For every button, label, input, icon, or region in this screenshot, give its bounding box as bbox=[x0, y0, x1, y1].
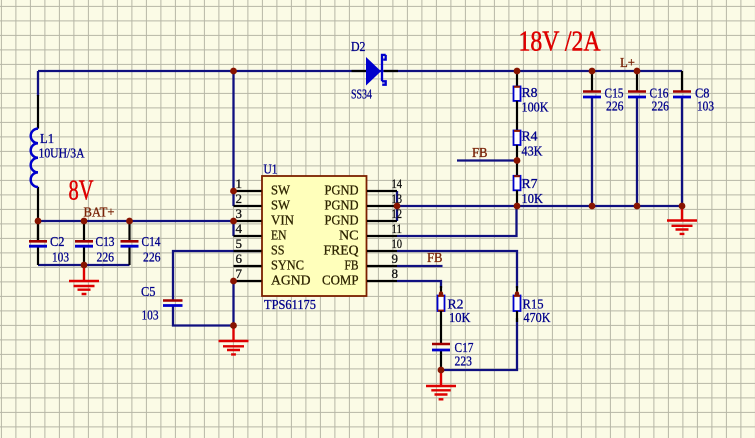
svg-text:PGND: PGND bbox=[325, 184, 359, 199]
junction pin1 bbox=[230, 188, 237, 195]
svg-text:FB: FB bbox=[427, 251, 443, 266]
svg-text:SW: SW bbox=[271, 199, 291, 214]
wire C5 bottom to ground node bbox=[173, 305, 234, 326]
svg-text:C14: C14 bbox=[142, 235, 161, 250]
wire PGND rail pin13 to right ground bbox=[397, 205, 682, 207]
ground at C17 bbox=[440, 370, 442, 386]
junction top wire at C16 bbox=[634, 68, 641, 75]
resistor R2 lead bottom bbox=[440, 311, 442, 344]
svg-text:10K: 10K bbox=[522, 192, 544, 207]
svg-text:2: 2 bbox=[236, 191, 243, 206]
capacitor C13 bbox=[83, 221, 85, 240]
svg-text:L+: L+ bbox=[620, 56, 635, 71]
resistor R7 bbox=[514, 176, 521, 191]
capacitor C17 bbox=[432, 343, 450, 346]
svg-text:5: 5 bbox=[236, 236, 243, 251]
svg-text:VIN: VIN bbox=[271, 214, 294, 229]
svg-text:43K: 43K bbox=[522, 145, 543, 160]
resistor R15 bbox=[514, 296, 521, 312]
pin L1 bottom lead to C2 bbox=[37, 187, 39, 241]
wire pins 14-13-12 vertical bbox=[396, 191, 398, 221]
svg-text:103: 103 bbox=[142, 309, 159, 324]
svg-text:BAT+: BAT+ bbox=[84, 206, 115, 221]
wire SS pin5 to C5 bbox=[173, 251, 262, 300]
svg-text:470K: 470K bbox=[524, 311, 551, 326]
resistor R8 bbox=[514, 86, 521, 101]
svg-text:R4: R4 bbox=[522, 130, 538, 145]
diode D2 SS34 bbox=[366, 57, 381, 86]
svg-text:SW: SW bbox=[271, 184, 291, 199]
wire top rail 8V to D2 to 18V bbox=[38, 70, 682, 72]
svg-text:SS34: SS34 bbox=[351, 88, 372, 103]
resistor R15 lead bottom bbox=[516, 311, 518, 322]
junction FB node bbox=[514, 157, 521, 164]
resistor R8 lead top bbox=[516, 71, 518, 86]
svg-text:L1: L1 bbox=[40, 132, 54, 147]
resistor R2 bbox=[438, 296, 445, 312]
wire pin10 FREQ to R15 bbox=[397, 251, 517, 288]
capacitor C14 bbox=[128, 221, 130, 240]
resistor R4-R7 lead bbox=[516, 145, 518, 176]
svg-text:FB: FB bbox=[345, 259, 359, 274]
svg-text:R8: R8 bbox=[522, 86, 538, 101]
junction pin3 bbox=[230, 218, 237, 225]
svg-text:8V: 8V bbox=[69, 176, 94, 207]
wire pin9 FB stub bbox=[397, 265, 443, 267]
svg-text:226: 226 bbox=[143, 251, 161, 266]
pin 11 NC bbox=[367, 235, 397, 237]
svg-text:FB: FB bbox=[472, 146, 488, 161]
pin C17 bottom lead to ground node bbox=[440, 350, 442, 370]
svg-text:6: 6 bbox=[236, 251, 243, 266]
wire left vertical to pins 1-2 bbox=[232, 71, 234, 206]
pin L1 top lead bbox=[37, 71, 39, 96]
resistor R7 lead bottom bbox=[516, 190, 518, 206]
svg-text:R7: R7 bbox=[522, 177, 538, 192]
svg-text:9: 9 bbox=[392, 251, 399, 266]
svg-text:226: 226 bbox=[97, 251, 115, 266]
wire FB net to R4-R7 junction bbox=[457, 159, 517, 161]
svg-text:TPS61175: TPS61175 bbox=[264, 298, 316, 313]
resistor R4 bbox=[514, 131, 521, 146]
resistor R15 lead top bbox=[516, 286, 518, 296]
svg-text:PGND: PGND bbox=[325, 199, 359, 214]
resistor R8-R4 lead bbox=[516, 101, 518, 131]
svg-text:226: 226 bbox=[652, 100, 670, 115]
wire pin11 NC to gnd rail bbox=[397, 206, 517, 236]
pin 7 AGND bbox=[234, 280, 262, 282]
junction PGND rail at C16 bbox=[634, 203, 641, 210]
svg-text:AGND: AGND bbox=[271, 274, 311, 289]
svg-text:18V /2A: 18V /2A bbox=[519, 27, 602, 58]
capacitor C5 bbox=[163, 299, 183, 302]
junction C17 ground node bbox=[438, 367, 445, 374]
svg-text:C5: C5 bbox=[141, 285, 156, 300]
svg-text:103: 103 bbox=[52, 251, 69, 266]
junction top wire at R8 bbox=[514, 68, 521, 75]
svg-text:EN: EN bbox=[271, 229, 287, 244]
svg-text:100K: 100K bbox=[522, 101, 549, 116]
pin 13 PGND bbox=[367, 205, 397, 207]
svg-text:226: 226 bbox=[606, 100, 624, 115]
svg-text:10K: 10K bbox=[449, 311, 471, 326]
pin 3 VIN bbox=[234, 220, 262, 222]
junction AGND ground node bbox=[230, 322, 237, 329]
junction BAT+ at C2 bbox=[35, 218, 42, 225]
pin 9 FB bbox=[367, 265, 397, 267]
junction top wire at left vertical bbox=[230, 68, 237, 75]
pin 2 SW bbox=[234, 205, 262, 207]
capacitor C16 lead bbox=[636, 71, 638, 91]
svg-text:4: 4 bbox=[236, 221, 243, 236]
svg-text:1: 1 bbox=[236, 176, 243, 191]
capacitor C16 bbox=[628, 90, 646, 93]
op-amp U1 TPS61175 body bbox=[262, 176, 367, 296]
pin 12 PGND bbox=[367, 220, 397, 222]
inductor L1 bbox=[31, 129, 38, 187]
pin 5 SS bbox=[234, 250, 262, 252]
wire pin8 COMP to R2 bbox=[397, 281, 441, 288]
junction pin7 bbox=[230, 278, 237, 285]
svg-text:U1: U1 bbox=[264, 163, 278, 178]
pin 8 COMP bbox=[367, 280, 397, 282]
svg-text:10UH/3A: 10UH/3A bbox=[39, 147, 86, 162]
svg-text:11: 11 bbox=[392, 221, 403, 236]
svg-text:SYNC: SYNC bbox=[271, 259, 304, 274]
pin 14 PGND bbox=[367, 190, 397, 192]
capacitor C15 bbox=[583, 90, 601, 93]
wire bottom-left cap rail bbox=[38, 264, 130, 266]
wire pin3 to pin4 vertical bbox=[232, 221, 234, 236]
capacitor C8 lead bbox=[681, 71, 683, 91]
junction C13 bottom bbox=[81, 262, 88, 269]
svg-text:D2: D2 bbox=[351, 40, 366, 55]
junction PGND rail at R7 bbox=[514, 203, 521, 210]
junction top wire at C15 bbox=[589, 68, 596, 75]
svg-text:FREQ: FREQ bbox=[324, 244, 359, 259]
svg-text:C13: C13 bbox=[96, 235, 115, 250]
ground at right rail bbox=[681, 206, 683, 220]
svg-text:10: 10 bbox=[392, 236, 403, 251]
junction PGND rail at C8 bbox=[679, 203, 686, 210]
junction BAT+ at C14 bbox=[126, 218, 133, 225]
diode D2 anode lead bbox=[352, 70, 367, 72]
svg-text:C2: C2 bbox=[50, 235, 65, 250]
wire R15 bottom to C17 ground node bbox=[441, 318, 517, 370]
junction PGND rail at pin13 bbox=[394, 203, 401, 210]
resistor R2 lead top bbox=[440, 286, 442, 296]
svg-text:COMP: COMP bbox=[322, 274, 359, 289]
pin 6 SYNC bbox=[234, 265, 262, 267]
wire pin7 AGND down to ground node bbox=[232, 281, 234, 326]
capacitor C15 lead bbox=[591, 71, 593, 91]
svg-text:14: 14 bbox=[392, 176, 403, 191]
junction BAT+ at C13 bbox=[81, 218, 88, 225]
ground at AGND/C5 bbox=[232, 326, 234, 341]
capacitor C8 bbox=[673, 90, 691, 93]
ground under C13 bbox=[83, 265, 85, 281]
wire BAT+ rail bbox=[38, 220, 234, 222]
junction R2 top bbox=[439, 291, 443, 295]
svg-text:SS: SS bbox=[271, 244, 285, 259]
pin 1 SW bbox=[234, 190, 262, 192]
svg-text:8: 8 bbox=[392, 266, 399, 281]
svg-text:103: 103 bbox=[697, 100, 714, 115]
svg-text:7: 7 bbox=[236, 266, 243, 281]
pin 10 FREQ bbox=[367, 250, 397, 252]
svg-text:3: 3 bbox=[236, 206, 243, 221]
capacitor C2 bbox=[37, 221, 39, 240]
junction R15 top bbox=[515, 291, 519, 295]
pin 4 EN bbox=[234, 235, 262, 237]
wire C8 leg lower bbox=[681, 97, 683, 206]
diode D2 cathode lead bbox=[384, 70, 398, 72]
wire C16 leg lower bbox=[636, 97, 638, 206]
svg-text:223: 223 bbox=[455, 355, 473, 370]
junction PGND rail at C15 bbox=[589, 203, 596, 210]
svg-text:PGND: PGND bbox=[325, 214, 359, 229]
wire C15 leg lower bbox=[591, 97, 593, 206]
svg-text:NC: NC bbox=[339, 229, 359, 244]
